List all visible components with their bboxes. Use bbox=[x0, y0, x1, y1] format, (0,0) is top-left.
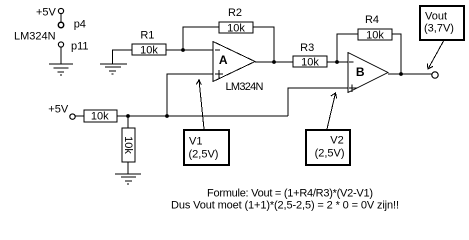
op-amp U1B bbox=[348, 53, 388, 93]
terminal Vout bbox=[432, 72, 438, 78]
svg-text:R3: R3 bbox=[300, 42, 314, 54]
node junction divider / A+ bbox=[165, 114, 169, 118]
wire +5V to p4 bbox=[60, 14, 62, 22]
svg-text:Vout: Vout bbox=[425, 10, 447, 22]
wire junction down to R6 bbox=[127, 116, 129, 128]
wire V2 arrow to B+ bbox=[327, 93, 337, 129]
svg-text:B: B bbox=[356, 65, 365, 79]
svg-text:p4: p4 bbox=[74, 19, 86, 31]
resistor R3 bbox=[293, 42, 327, 69]
svg-text:R2: R2 bbox=[228, 7, 242, 19]
svg-text:p11: p11 bbox=[71, 41, 89, 53]
svg-text:(2,5V): (2,5V) bbox=[189, 148, 219, 160]
svg-text:Dus Vout moet (1+1)*(2,5-2,5): Dus Vout moet (1+1)*(2,5-2,5) = 2 * 0 = … bbox=[171, 200, 399, 212]
svg-text:10k: 10k bbox=[122, 136, 134, 154]
svg-text:LM324N: LM324N bbox=[14, 31, 56, 43]
terminal +5V top bbox=[58, 8, 63, 13]
terminal +5V bottom bbox=[70, 114, 75, 119]
node Vout (callout box) bbox=[420, 6, 464, 40]
pin p4 bbox=[58, 22, 63, 27]
node junction divider / R6 bbox=[126, 114, 130, 118]
node junction R3/R4 bbox=[335, 60, 339, 64]
ground (below p11) bbox=[49, 64, 73, 75]
svg-text:+5V: +5V bbox=[36, 6, 57, 18]
svg-text:10k: 10k bbox=[366, 29, 384, 41]
wire op-amp A output to R3 bbox=[255, 61, 293, 63]
resistor R4 bbox=[358, 14, 392, 41]
svg-text:10k: 10k bbox=[91, 111, 109, 123]
node junction B output / R4 bbox=[399, 72, 403, 76]
wire divider rail bbox=[117, 115, 288, 117]
svg-text:(2,5V): (2,5V) bbox=[315, 148, 345, 160]
svg-text:10k: 10k bbox=[140, 45, 158, 57]
svg-text:LM324N: LM324N bbox=[226, 81, 264, 93]
wire R3 to op-amp B inverting input bbox=[327, 61, 348, 63]
wire R2 down to op-amp A output bbox=[253, 27, 274, 62]
wire ground to R1 bbox=[113, 50, 133, 64]
ground (below R6) bbox=[115, 174, 141, 184]
resistor R6 (divider bottom 10k, vertical) bbox=[122, 128, 135, 162]
op-amp U1A bbox=[213, 42, 255, 82]
wire junction up to R2 bbox=[183, 27, 219, 50]
wire junction up to R4 bbox=[337, 34, 358, 62]
svg-text:V2: V2 bbox=[330, 135, 343, 147]
svg-text:(3,7V): (3,7V) bbox=[424, 22, 454, 34]
pin p11 bbox=[58, 42, 63, 47]
wire op-amp B output to Vout terminal bbox=[388, 73, 432, 75]
wire p11 to ground bbox=[60, 48, 62, 65]
label formula line 2 bbox=[171, 200, 399, 212]
label LM324N (op-amp A) bbox=[226, 81, 264, 93]
node +5V (bottom supply label) bbox=[48, 104, 69, 116]
svg-text:R1: R1 bbox=[140, 30, 154, 42]
ground (left of R1) bbox=[100, 64, 127, 74]
wire R1 to op-amp A inverting input bbox=[166, 49, 213, 51]
wire divider to op-amp A non-inverting input bbox=[167, 74, 213, 116]
node junction R1/R2 bbox=[181, 48, 185, 52]
wire R4 down to op-amp B output bbox=[392, 34, 401, 74]
node junction A output / R2 bbox=[272, 60, 276, 64]
node V2 (callout box) bbox=[306, 130, 350, 165]
svg-text:R4: R4 bbox=[365, 14, 379, 26]
svg-text:10k: 10k bbox=[227, 22, 245, 34]
wire Vout arrow to output bbox=[427, 41, 443, 69]
resistor R5 (divider top 10k) bbox=[84, 110, 117, 123]
label formula line 1 bbox=[207, 188, 373, 200]
svg-text:A: A bbox=[219, 53, 228, 67]
svg-text:+5V: +5V bbox=[48, 104, 69, 116]
resistor R1 bbox=[132, 30, 166, 57]
wire V1 arrow to A+ bbox=[196, 80, 204, 129]
node +5V (top supply label) bbox=[36, 6, 57, 18]
svg-text:V1: V1 bbox=[189, 136, 202, 148]
svg-text:Formule: Vout = (1+R4/R3)*(V2-: Formule: Vout = (1+R4/R3)*(V2-V1) bbox=[207, 188, 373, 200]
wire R6 to ground bbox=[127, 162, 129, 174]
wire terminal to divider resistor bbox=[76, 115, 85, 117]
label LM324N (IC power pins) bbox=[14, 31, 56, 43]
svg-text:10k: 10k bbox=[301, 57, 319, 69]
wire divider to op-amp B non-inverting input bbox=[288, 88, 348, 116]
node V1 (callout box) bbox=[184, 130, 229, 165]
resistor R2 bbox=[219, 7, 253, 34]
